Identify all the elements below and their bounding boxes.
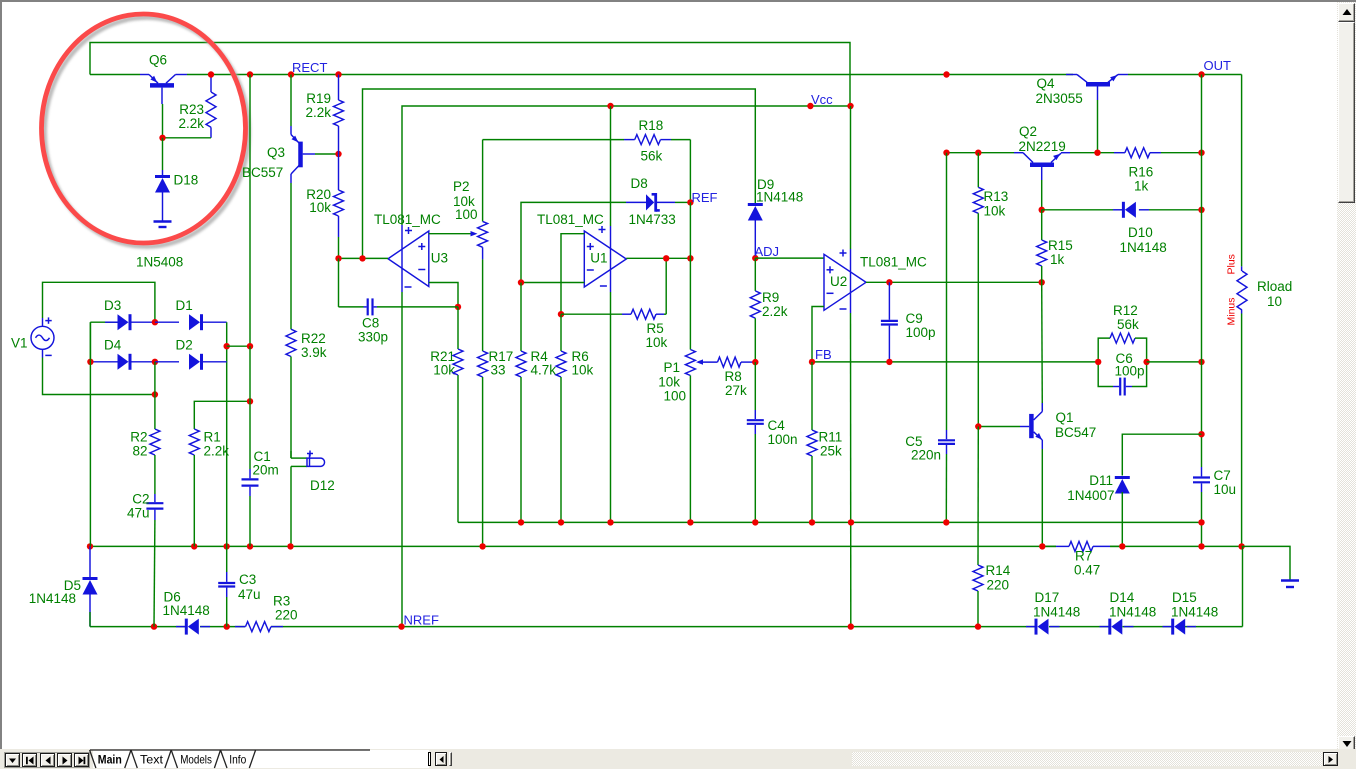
svg-text:0.47: 0.47 [1074, 563, 1100, 578]
resistor R3 [235, 622, 283, 632]
wire bridge minus down [89, 322, 91, 546]
resistor R23 [206, 75, 216, 138]
svg-text:TL081_MC: TL081_MC [374, 212, 441, 227]
svg-text:2.2k: 2.2k [204, 444, 230, 459]
svg-text:Q1: Q1 [1056, 410, 1074, 425]
node ADJ [752, 244, 779, 261]
label Q6 [149, 53, 167, 68]
svg-text:C2: C2 [132, 492, 149, 507]
svg-text:10k: 10k [433, 363, 455, 378]
junction D4/D2 [152, 359, 158, 365]
svg-text:D11: D11 [1089, 473, 1113, 488]
resistor R18 [483, 135, 691, 145]
junction dots RECT rail [208, 71, 950, 77]
svg-text:D15: D15 [1172, 590, 1197, 605]
label R11 [819, 430, 843, 459]
label D12 [310, 478, 335, 493]
resistor R7 [1042, 541, 1122, 551]
svg-text:Info: Info [229, 753, 246, 767]
resistor R17 [478, 351, 488, 546]
junction V1 bottom [152, 391, 158, 397]
svg-text:D8: D8 [631, 176, 648, 191]
wiper arrow P1 [696, 359, 703, 364]
diode D1 [155, 314, 227, 330]
nav buttons panel [4, 752, 90, 769]
wire bus A (OUT return) [458, 307, 1202, 523]
svg-text:Plus: Plus [1226, 254, 1238, 274]
label D8 [629, 176, 676, 227]
svg-text:56k: 56k [1117, 317, 1139, 332]
wire Q3 emitter from RECT [290, 75, 292, 127]
junction D11 top [1198, 431, 1204, 437]
svg-text:1N5408: 1N5408 [136, 255, 183, 270]
node Vcc [807, 92, 833, 109]
junction dots Vcc rail [607, 103, 853, 109]
horizontal scrollbar track [852, 752, 1322, 767]
wire Q2 emitter to R16 [1070, 152, 1125, 154]
transistor Q1 [1020, 403, 1042, 449]
svg-text:1N4148: 1N4148 [756, 190, 803, 205]
svg-text:25k: 25k [820, 444, 842, 459]
wire Q4 base [1097, 100, 1099, 153]
label C1 [253, 449, 279, 478]
svg-text:1N4148: 1N4148 [163, 603, 210, 618]
junction dots U2 output [886, 279, 1045, 285]
junction bridge out [224, 343, 230, 349]
label R23 [178, 102, 204, 131]
label R8 [725, 369, 748, 398]
label D17 [1033, 590, 1080, 620]
svg-text:D2: D2 [176, 338, 193, 353]
wire R5 up [665, 258, 667, 314]
svg-text:1N4148: 1N4148 [1033, 605, 1080, 620]
label P2 [453, 179, 478, 222]
label C4 [768, 418, 798, 447]
junction dots bus B [87, 543, 1245, 549]
wire NREF rail [90, 626, 1243, 628]
wire RECT rail [187, 74, 1073, 76]
label R20 [306, 187, 331, 215]
ground (earth) symbol [1281, 581, 1299, 588]
label R14 [986, 563, 1011, 593]
svg-text:TL081_MC: TL081_MC [860, 255, 927, 270]
svg-text:R9: R9 [762, 290, 779, 305]
junction U1 minus [518, 279, 524, 285]
svg-text:10k: 10k [309, 200, 331, 215]
node FB [809, 347, 832, 365]
tabs [0, 749, 370, 769]
label C8 [358, 316, 388, 345]
svg-text:R1: R1 [204, 430, 221, 445]
svg-text:REF: REF [692, 190, 718, 205]
label D10 [1120, 225, 1167, 255]
vertical scrollbar down button [1338, 736, 1356, 751]
capacitor C7 [1193, 467, 1210, 546]
label R5 [646, 321, 668, 350]
resistor R16 [1125, 148, 1202, 158]
svg-text:2.2k: 2.2k [178, 116, 204, 131]
resistor R22 [286, 329, 296, 458]
junction C9 bottom [886, 359, 892, 365]
junction dots Q2 rail [943, 150, 1204, 156]
junction Q4 base [1094, 150, 1100, 156]
label R2 [130, 430, 147, 459]
wire OUT rail top [1128, 74, 1242, 76]
resistor R9 [750, 258, 760, 362]
resistor R2 [150, 429, 160, 494]
label C5 [905, 434, 941, 463]
wire R1 top [194, 401, 250, 429]
svg-text:2N2219: 2N2219 [1019, 139, 1066, 154]
label Plus [1226, 254, 1238, 274]
label Q4 [1036, 76, 1083, 106]
transistor Q2 [1014, 153, 1070, 180]
svg-text:D18: D18 [174, 173, 199, 188]
label R18 [639, 118, 664, 164]
wire R4 chain [520, 283, 522, 352]
resistor R13 [973, 153, 983, 427]
label U3 type [374, 212, 441, 227]
wire Q1 base [978, 426, 1020, 428]
label R16 [1129, 165, 1154, 194]
label U1 type [537, 212, 604, 227]
wire U2 output [866, 281, 1042, 283]
junction dots bus A [518, 519, 1205, 525]
op-amp U3 [388, 231, 448, 287]
svg-text:20m: 20m [253, 463, 279, 478]
wire U1 plus input [561, 234, 584, 315]
junction R9/C4 [752, 359, 758, 365]
wire bus B (ground) [90, 545, 1242, 547]
label R3 [273, 594, 298, 623]
circled annotation ellipse [42, 14, 249, 247]
capacitor C5 [938, 153, 955, 523]
diode D18 [155, 177, 170, 193]
svg-text:R12: R12 [1113, 303, 1138, 318]
svg-text:P2: P2 [453, 179, 470, 194]
label C7 [1214, 468, 1237, 497]
diode D5 [83, 546, 98, 626]
svg-text:Q4: Q4 [1037, 76, 1056, 91]
capacitor C1 [242, 346, 259, 546]
svg-text:R22: R22 [301, 331, 326, 346]
wire bridge right [226, 322, 228, 546]
svg-text:R18: R18 [639, 118, 664, 133]
wire to D18 [162, 138, 164, 177]
svg-text:BC547: BC547 [1055, 425, 1096, 440]
capacitor C2 [146, 494, 163, 627]
resistor R20 [334, 154, 344, 258]
capacitor C9 [881, 282, 898, 362]
label R22 [301, 331, 327, 360]
window top border [0, 0, 1356, 2]
svg-text:Q2: Q2 [1019, 124, 1037, 139]
wire Q3 collector down [290, 183, 292, 329]
vertical scrollbar up button [1338, 3, 1356, 22]
junction D4 left [87, 359, 93, 365]
resistor R19 [334, 75, 344, 155]
capacitor C4 [747, 362, 764, 522]
svg-text:2N3055: 2N3055 [1036, 91, 1083, 106]
svg-text:1N4148: 1N4148 [1109, 605, 1156, 620]
vertical scrollbar thumb [1338, 22, 1356, 203]
svg-text:2.2k: 2.2k [305, 105, 331, 120]
svg-text:R3: R3 [273, 594, 290, 609]
transistor Q6 [140, 75, 187, 105]
svg-text:D12: D12 [310, 478, 335, 493]
svg-text:V1: V1 [11, 336, 28, 351]
junction R23/D18 [159, 135, 165, 141]
label D1 [176, 298, 193, 313]
svg-text:220: 220 [275, 608, 298, 623]
junction Q1 base [975, 423, 981, 429]
junction dots NREF [151, 623, 981, 629]
capacitor C8 [339, 258, 459, 315]
label D6 [163, 590, 210, 619]
wire U3 plus input [429, 231, 478, 236]
label Minus [1226, 297, 1238, 325]
svg-text:Q6: Q6 [149, 53, 167, 68]
resistor R4 [516, 351, 526, 522]
svg-text:D1: D1 [176, 298, 193, 313]
svg-text:33: 33 [491, 363, 506, 378]
tab area divider [428, 752, 431, 766]
op-amp U1 supply marks [599, 226, 607, 286]
svg-text:82: 82 [132, 444, 147, 459]
svg-text:100p: 100p [906, 325, 936, 340]
svg-text:OUT: OUT [1204, 58, 1232, 73]
resistor R14 [973, 427, 983, 627]
wire OUT vertical [1201, 75, 1203, 468]
wire D11 top [1122, 434, 1201, 475]
svg-text:R16: R16 [1129, 165, 1154, 180]
svg-text:10k: 10k [984, 204, 1006, 219]
resistor R5 [561, 309, 666, 319]
bottom bar background [0, 749, 1356, 769]
wire R23 bottom [163, 137, 212, 139]
junction dots U3 output [335, 255, 365, 261]
svg-text:R14: R14 [986, 563, 1011, 578]
svg-text:R13: R13 [984, 189, 1009, 204]
svg-text:10u: 10u [1214, 482, 1237, 497]
horizontal scrollbar right arrow [1323, 752, 1338, 767]
svg-text:C8: C8 [362, 316, 379, 331]
wire feedback rail y89 [363, 89, 756, 258]
node NREF [398, 613, 439, 630]
label R19 [305, 91, 331, 120]
svg-text:220: 220 [987, 578, 1010, 593]
wire NREF left corner [89, 612, 91, 627]
window left border [0, 0, 2, 769]
label C3 [238, 572, 261, 602]
svg-text:47u: 47u [238, 587, 261, 602]
svg-text:10: 10 [1267, 294, 1282, 309]
horizontal scrollbar left arrow [435, 752, 448, 767]
op-amp U2 [824, 254, 866, 310]
svg-text:Text: Text [140, 753, 164, 767]
svg-text:R23: R23 [179, 102, 204, 117]
wire Q1 emitter down [1041, 449, 1043, 546]
label P1 [658, 360, 686, 404]
svg-text:Rload: Rload [1257, 279, 1292, 294]
svg-text:1k: 1k [1050, 252, 1065, 267]
wire Q1 collector [1041, 282, 1044, 410]
wire U3 supply [401, 225, 403, 627]
label R15 [1048, 238, 1073, 267]
wire U3 output [339, 257, 389, 259]
label D5 [29, 578, 81, 606]
svg-text:27k: 27k [725, 383, 747, 398]
wire D8 left [521, 202, 626, 282]
wire Vcc rail [402, 106, 851, 225]
diode D10 [1042, 202, 1202, 218]
svg-text:D3: D3 [104, 298, 121, 313]
wire U3 minus input [429, 283, 458, 307]
svg-text:D14: D14 [1110, 590, 1135, 605]
wire ADJ to U2 [755, 257, 824, 259]
resistor R15 [1037, 210, 1047, 282]
svg-text:C9: C9 [906, 311, 923, 326]
svg-text:U3: U3 [431, 250, 448, 265]
junction dots U1 output [663, 255, 694, 261]
label R12 [1113, 303, 1139, 332]
svg-text:NREF: NREF [404, 613, 439, 628]
svg-text:R7: R7 [1075, 549, 1092, 564]
label D3 [104, 298, 121, 313]
wire Q2 base down [1041, 180, 1043, 210]
capacitor C6 [1098, 362, 1146, 396]
label D2 [176, 338, 193, 353]
label Q2 [1019, 124, 1066, 154]
diode D14 [1100, 619, 1134, 635]
svg-text:R2: R2 [130, 430, 147, 445]
zener diode D8 [626, 193, 690, 212]
wire R2 chain [154, 362, 156, 429]
diode D4 [118, 354, 155, 370]
label R4 [531, 349, 557, 378]
op-amp U3 supply marks [405, 227, 413, 287]
svg-text:R5: R5 [647, 321, 664, 336]
label Q3 [242, 145, 285, 180]
svg-text:1N4148: 1N4148 [29, 591, 76, 606]
wire V1 plus [43, 282, 155, 322]
resistor Rload [1237, 75, 1247, 547]
wire D4 left [90, 361, 119, 363]
label Rload [1257, 279, 1292, 309]
wire bridge top-left [90, 322, 119, 362]
node RECT [288, 60, 328, 78]
diode D17 [1026, 619, 1060, 635]
wire ground stub [1242, 546, 1290, 579]
svg-text:U2: U2 [830, 274, 847, 289]
label C2 [127, 492, 150, 521]
svg-text:RECT: RECT [292, 60, 327, 75]
potentiometer P1 [685, 202, 695, 522]
svg-text:3.9k: 3.9k [301, 345, 327, 360]
svg-text:ADJ: ADJ [755, 244, 780, 259]
svg-text:FB: FB [815, 347, 832, 362]
svg-text:1k: 1k [1134, 179, 1149, 194]
label V1 [11, 336, 28, 351]
wire Q2 rail [947, 152, 1015, 154]
wire bridge output [227, 345, 250, 347]
label R13 [984, 189, 1009, 219]
label D11 [1067, 473, 1114, 503]
wire RECT to bridge output [249, 75, 251, 347]
wire NREF right up [1242, 546, 1244, 626]
wire Q3 base [315, 153, 339, 155]
transistor Q3 [291, 126, 315, 183]
resistor R11 [807, 362, 817, 523]
svg-text:R19: R19 [306, 91, 331, 106]
junction FB/OUT [1198, 359, 1204, 365]
junction Q2 base/D10 [1039, 207, 1045, 213]
wire U1 output [626, 257, 690, 259]
wire R18 right down [689, 140, 691, 203]
svg-text:1N4007: 1N4007 [1067, 488, 1114, 503]
wire Q6 top loop [90, 43, 850, 108]
label D14 [1109, 590, 1156, 620]
junction R5 left [558, 311, 564, 317]
voltage source V1 [31, 317, 54, 357]
wire D18 to ground [162, 191, 164, 222]
capacitor C3 [218, 546, 235, 626]
junction C8 right [455, 304, 461, 310]
potentiometer P2 [478, 140, 488, 351]
resistor R21 [453, 349, 463, 375]
wire Q6 emitter lead [90, 74, 140, 76]
svg-text:330p: 330p [358, 330, 388, 345]
junction R1/C1 [247, 398, 253, 404]
vertical scrollbar track [1337, 2, 1356, 750]
diode D3 [105, 314, 155, 330]
svg-text:10k: 10k [646, 335, 668, 350]
svg-text:Minus: Minus [1226, 297, 1238, 325]
svg-text:56k: 56k [641, 149, 663, 164]
svg-text:C3: C3 [239, 572, 256, 587]
svg-text:1N4148: 1N4148 [1171, 605, 1218, 620]
op-amp U1 [584, 231, 626, 287]
label R7 [1074, 549, 1100, 578]
transistor Q4 [1066, 75, 1128, 101]
svg-text:220n: 220n [911, 448, 941, 463]
wire FB to OUT [1147, 361, 1202, 363]
resistor R12 [1098, 333, 1146, 362]
resistor R1 [189, 429, 199, 546]
label C6 [1115, 351, 1145, 379]
svg-text:Q3: Q3 [267, 145, 285, 160]
op-amp U2 supply marks [840, 250, 847, 310]
junction dots R12/C6 [1095, 359, 1150, 365]
ground for D18 [154, 222, 172, 228]
wire Q6 base down [162, 104, 164, 138]
svg-text:U1: U1 [590, 251, 607, 266]
wire U2 minus input [812, 307, 824, 362]
wire U2 supply pins [850, 249, 852, 313]
label D18 [174, 173, 199, 188]
svg-text:2.2k: 2.2k [762, 304, 788, 319]
junction bridge top [152, 319, 158, 325]
svg-text:1N4733: 1N4733 [629, 212, 676, 227]
svg-text:100: 100 [455, 207, 478, 222]
svg-text:1N4148: 1N4148 [1120, 240, 1167, 255]
diode D12 (indicator) [291, 451, 325, 547]
svg-text:Main: Main [98, 753, 122, 767]
diode D11 [1115, 478, 1130, 547]
node REF [687, 190, 717, 206]
svg-text:Models: Models [180, 753, 212, 767]
wire U2 supply vertical [850, 106, 852, 627]
